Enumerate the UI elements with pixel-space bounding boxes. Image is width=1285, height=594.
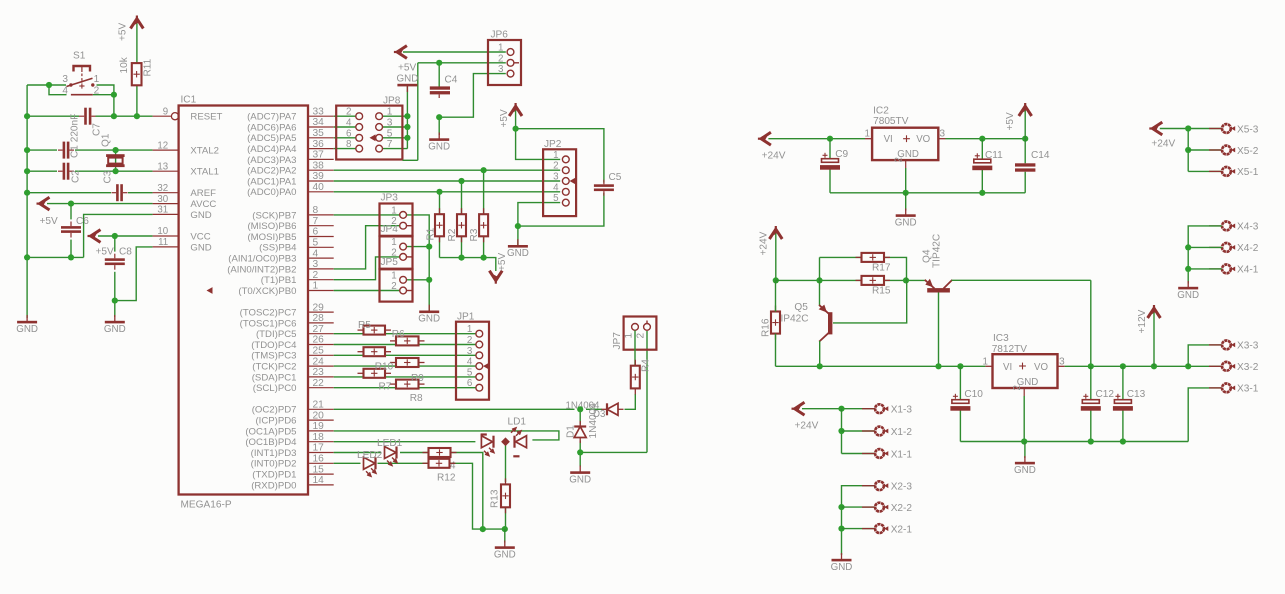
pin name (ICP)PD6 xyxy=(255,416,296,427)
svg-text:VI: VI xyxy=(884,134,893,145)
JP8 pin 4 circle xyxy=(356,124,363,131)
junction C4 top xyxy=(436,60,442,66)
wire +5V to C5 top xyxy=(516,129,604,183)
pin 28 stub ((TOSC1)PC6) xyxy=(308,322,334,324)
svg-text:7812TV: 7812TV xyxy=(992,344,1028,355)
power +5V arrow at VCC xyxy=(88,230,101,243)
label C10 xyxy=(964,389,983,400)
label JP4 xyxy=(381,224,399,235)
wire +24V to X1-3 xyxy=(802,408,875,410)
wire R15 to Q4 emitter xyxy=(884,279,926,281)
junction LD1 common cathode xyxy=(501,437,510,446)
wire R12 down to GND row xyxy=(450,463,505,529)
svg-text:X5-3: X5-3 xyxy=(1237,124,1259,135)
pin name (MISO)PB6 xyxy=(247,221,296,232)
pin number 33 xyxy=(313,106,325,117)
svg-text:(ADC5)PA5: (ADC5)PA5 xyxy=(247,133,296,144)
capacitor C11 xyxy=(972,153,992,170)
JP8 pin 7 circle xyxy=(376,145,383,152)
svg-text:(T1)PB1: (T1)PB1 xyxy=(261,275,297,286)
pin number 2 of JP8 xyxy=(346,107,351,118)
pin number 3 of IC3 xyxy=(1059,357,1065,368)
svg-text:9: 9 xyxy=(163,106,168,117)
wire GND joining segment xyxy=(27,256,84,258)
svg-text:GND: GND xyxy=(397,74,419,85)
label IC3 xyxy=(993,333,1009,344)
svg-text:GND: GND xyxy=(428,141,450,152)
pin 12 stub (XTAL2) xyxy=(153,149,179,151)
junction X5-3 xyxy=(1185,125,1191,131)
svg-text:4: 4 xyxy=(313,248,319,259)
svg-text:JP5: JP5 xyxy=(381,257,399,268)
label JP8 xyxy=(383,95,401,106)
pin marker on JP8 pin 5 xyxy=(370,134,376,141)
resistor R10 xyxy=(390,358,425,367)
wire AVCC net xyxy=(47,203,153,205)
svg-text:X1-1: X1-1 xyxy=(891,449,913,460)
label Q5 xyxy=(794,302,808,313)
junction X2-2 xyxy=(838,504,844,510)
capacitor C6 xyxy=(61,222,81,238)
wire C8 top branch xyxy=(114,236,116,252)
label +12V xyxy=(1137,309,1148,333)
diode D3 xyxy=(602,403,624,415)
pin name (ADC5)PA5 xyxy=(247,133,296,144)
svg-text:20: 20 xyxy=(313,410,325,421)
pin number 2 of IC2 xyxy=(893,157,904,162)
wire JP8 pin 1 to GND chain xyxy=(383,115,408,117)
svg-text:GND: GND xyxy=(895,217,917,228)
JP8 pin 5 circle xyxy=(376,134,383,141)
pin number 8 xyxy=(313,205,319,216)
svg-text:2: 2 xyxy=(313,270,319,281)
label X5-2 xyxy=(1237,146,1259,157)
svg-text:JP3: JP3 xyxy=(381,193,399,204)
svg-text:C14: C14 xyxy=(1031,150,1050,161)
wire Q5 base to node xyxy=(833,280,907,323)
svg-text:GND: GND xyxy=(190,210,211,221)
resistor R4 xyxy=(631,360,640,395)
JP1 pin 6 circle xyxy=(476,384,483,391)
svg-text:(T0/XCK)PB0: (T0/XCK)PB0 xyxy=(238,286,296,297)
svg-text:X2-3: X2-3 xyxy=(891,482,913,493)
svg-text:JP8: JP8 xyxy=(383,95,401,106)
svg-text:X2-1: X2-1 xyxy=(891,524,913,535)
power +5V arrow at JP6 xyxy=(394,46,407,59)
svg-text:1: 1 xyxy=(624,333,635,339)
svg-text:17: 17 xyxy=(313,443,325,454)
pin 3 stub ((AIN0/INT2)PB2) xyxy=(308,268,334,270)
JP3 pin 1 circle xyxy=(400,212,407,219)
svg-text:(OC2)PD7: (OC2)PD7 xyxy=(252,405,297,416)
label C12 xyxy=(1096,389,1115,400)
capacitor C2 xyxy=(58,163,74,180)
capacitor C8 xyxy=(105,254,125,270)
junction JP8 GND chain xyxy=(404,113,410,119)
pin 36 stub ((ADC4)PA4) xyxy=(308,148,334,150)
pin name (SS)PB4 xyxy=(259,243,297,254)
resistor R17 xyxy=(856,253,891,262)
junction C14 +5V arrow xyxy=(1022,136,1028,142)
pin number 32 xyxy=(157,183,168,194)
svg-text:18: 18 xyxy=(313,432,325,443)
pin 19 stub ((OC1A)PD5) xyxy=(308,430,334,432)
svg-text:3: 3 xyxy=(553,172,559,183)
connector JP2 body xyxy=(543,149,576,216)
pin number 18 xyxy=(313,432,325,443)
junction X3 rail xyxy=(1185,363,1191,369)
switch S1 xyxy=(67,66,95,95)
pin 5 stub ((SS)PB4) xyxy=(308,246,334,248)
svg-text:R1: R1 xyxy=(425,227,436,240)
pin name (SCK)PB7 xyxy=(252,210,296,221)
pin 8 stub ((SCK)PB7) xyxy=(308,214,334,216)
pin number 3 of JP1 xyxy=(467,346,473,357)
wire LD1 common cathode to R13 xyxy=(505,442,507,482)
wire S1 to reset net xyxy=(113,95,115,117)
svg-text:22: 22 xyxy=(313,378,325,389)
JP1 pin 4 circle xyxy=(476,363,483,370)
ground symbol above JP8 xyxy=(397,74,419,92)
wire R2 top xyxy=(461,181,463,214)
pin number 1 of JP1 xyxy=(467,324,472,335)
svg-text:19: 19 xyxy=(313,421,325,432)
svg-text:JP1: JP1 xyxy=(457,312,475,323)
wire resistor to JP1 pin 5 xyxy=(385,376,476,378)
label JP2 xyxy=(544,139,562,150)
wire reset net to IC pin9 xyxy=(96,115,153,117)
pin number 15 xyxy=(313,464,325,475)
label S1 xyxy=(73,51,86,62)
value 7805TV of IC2 xyxy=(873,116,909,127)
label C5 xyxy=(609,172,622,183)
pin number 4 of JP2 xyxy=(553,182,559,193)
pin name GND of IC3 xyxy=(1017,377,1039,388)
svg-text:JP2: JP2 xyxy=(544,139,562,150)
svg-text:(ADC3)PA3: (ADC3)PA3 xyxy=(247,155,296,166)
capacitor C3 xyxy=(112,184,128,201)
pin number 3 of IC2 xyxy=(939,129,945,140)
pin name (SCL)PC0 xyxy=(253,383,297,394)
wire resistor to JP1 pin 1 xyxy=(385,333,476,335)
junction JP5 GND xyxy=(426,277,432,283)
JP5 pin 2 circle xyxy=(400,287,407,294)
connector pin X4-1 xyxy=(1209,265,1235,274)
JP8 pin 1 circle xyxy=(376,113,383,120)
connector pin X4-3 xyxy=(1209,222,1235,231)
svg-text:+5V: +5V xyxy=(398,63,417,74)
pin name GND xyxy=(190,210,211,221)
pin 22 stub ((SCL)PC0) xyxy=(308,387,334,389)
svg-text:+24V: +24V xyxy=(1151,139,1175,150)
svg-text:11: 11 xyxy=(158,237,168,248)
pin 13 stub (XTAL1) xyxy=(153,170,179,172)
pin 21 stub ((OC2)PD7) xyxy=(308,408,334,410)
svg-text:+5V: +5V xyxy=(1005,112,1016,131)
junction C10 rail xyxy=(957,363,963,369)
svg-text:1: 1 xyxy=(498,43,503,54)
svg-text:26: 26 xyxy=(313,335,325,346)
svg-text:5: 5 xyxy=(553,193,559,204)
label R3 xyxy=(469,228,480,241)
pin 38 stub ((ADC2)PA2) xyxy=(308,169,334,171)
svg-text:XTAL2: XTAL2 xyxy=(190,146,219,157)
svg-text:2: 2 xyxy=(467,335,472,346)
wire PD3 to LED1 xyxy=(334,452,381,454)
wire X3-1 to GND rail xyxy=(1188,388,1222,442)
junction S1 left xyxy=(46,82,52,88)
label X3-1 xyxy=(1237,384,1259,395)
pin name AREF xyxy=(190,188,216,199)
pin number 24 xyxy=(313,356,325,367)
label D3 xyxy=(593,409,605,420)
svg-text:3: 3 xyxy=(467,346,473,357)
pin number 7 of JP8 xyxy=(387,139,393,150)
wire Q4 collector to +12V xyxy=(952,279,1091,281)
junction R3 bottom xyxy=(481,255,487,261)
svg-text:(OC1B)PD4: (OC1B)PD4 xyxy=(245,437,297,448)
svg-text:(ADC4)PA4: (ADC4)PA4 xyxy=(247,144,297,155)
svg-text:LED1: LED1 xyxy=(377,438,403,449)
wire X1 vertical xyxy=(841,409,843,454)
svg-text:C5: C5 xyxy=(609,172,622,183)
wire R17 left stub xyxy=(820,256,862,258)
label C8 xyxy=(119,247,132,258)
svg-text:28: 28 xyxy=(313,313,325,324)
pin name (T1)PB1 xyxy=(261,275,297,286)
pin 7 stub ((MISO)PB6) xyxy=(308,225,334,227)
pin 26 stub ((TDO)PC4) xyxy=(308,344,334,346)
svg-text:IC3: IC3 xyxy=(993,333,1009,344)
JP8 pin 6 circle xyxy=(356,134,363,141)
pin number 23 xyxy=(313,367,325,378)
pin number 16 xyxy=(313,454,325,465)
JP2 pin 3 circle xyxy=(562,178,569,185)
wire PC pin to resistor row 2 xyxy=(334,344,396,346)
svg-text:(TOSC1)PC6: (TOSC1)PC6 xyxy=(240,318,297,329)
svg-text:1: 1 xyxy=(467,324,472,335)
label JP3 xyxy=(381,193,399,204)
pin 1 stub ((T0/XCK)PB0) xyxy=(308,290,334,292)
LED LD1 left diode xyxy=(481,433,494,455)
power +5V arrow above R11 xyxy=(131,16,144,29)
pin number 26 xyxy=(313,335,325,346)
pin number 2 of IC3 xyxy=(1012,385,1023,390)
svg-text:GND: GND xyxy=(1014,465,1036,476)
pin number 30 xyxy=(157,194,168,205)
svg-text:7: 7 xyxy=(387,139,393,150)
svg-text:Q5: Q5 xyxy=(794,302,808,313)
pin 15 stub ((TXD)PD1) xyxy=(308,473,334,475)
pin number 3 of JP8 xyxy=(387,118,393,129)
ground symbol under R13 xyxy=(494,541,516,561)
JP6 pin 1 circle xyxy=(507,49,514,56)
junction AVCC C6 xyxy=(68,201,74,207)
svg-text:(SCL)PC0: (SCL)PC0 xyxy=(253,383,297,394)
svg-text:4: 4 xyxy=(553,182,559,193)
wire to X1-2 xyxy=(842,430,876,432)
svg-text:VI: VI xyxy=(1003,362,1012,373)
transistor Q5 TIP42C xyxy=(819,305,833,342)
svg-text:GND: GND xyxy=(494,549,516,560)
wire JP7 pin2 vertical xyxy=(646,331,648,452)
junction S1 right xyxy=(111,92,117,98)
svg-text:C12: C12 xyxy=(1096,389,1115,400)
svg-text:R11: R11 xyxy=(143,58,154,76)
resistor R6 xyxy=(390,336,425,345)
pin 3 stub of IC2 xyxy=(938,138,945,140)
connector JP5 body xyxy=(380,269,413,301)
wire C11 bottom stub xyxy=(981,169,983,193)
svg-text:VO: VO xyxy=(1034,362,1048,373)
wire +24V to IC2 VI xyxy=(768,138,865,140)
wire C10 top stub xyxy=(959,366,961,400)
svg-text:Q1: Q1 xyxy=(101,133,112,147)
pin name AVCC xyxy=(190,199,216,210)
svg-text:MEGA16-P: MEGA16-P xyxy=(181,500,232,511)
label Q4 xyxy=(922,249,933,263)
svg-text:1: 1 xyxy=(553,150,558,161)
pin 25 stub ((TMS)PC3) xyxy=(308,354,334,356)
wire node to D3 xyxy=(586,408,602,410)
label R2 xyxy=(447,228,458,241)
wire XTAL1 net left xyxy=(27,170,57,172)
pin name (AIN1/OC0)PB3 xyxy=(228,254,296,265)
connector pin X5-3 xyxy=(1209,124,1235,133)
svg-text:RESET: RESET xyxy=(190,112,222,123)
pin marker on JP7 pin 2 xyxy=(646,321,648,324)
label X2-1 xyxy=(891,524,913,535)
pin number 8 of JP8 xyxy=(346,139,352,150)
svg-text:1: 1 xyxy=(864,129,869,140)
label C2 xyxy=(71,170,82,183)
resistor R9 xyxy=(358,347,392,356)
pin name (ADC0)PA0 xyxy=(247,187,296,198)
transistor Q4 TIP42C xyxy=(925,279,952,293)
pin number 11 xyxy=(158,237,168,248)
svg-text:GND: GND xyxy=(418,314,440,325)
svg-text:37: 37 xyxy=(313,150,325,161)
LED LED1 xyxy=(385,447,398,466)
pin 20 stub ((ICP)PD6) xyxy=(308,419,334,421)
wire R2 bottom xyxy=(461,236,463,257)
wire Q4 base down xyxy=(938,293,940,367)
resistor R7 xyxy=(358,369,392,378)
wire R17 right xyxy=(884,257,907,280)
svg-text:X3-2: X3-2 xyxy=(1237,362,1259,373)
label LED2 xyxy=(357,450,383,461)
pin 4 stub ((AIN1/OC0)PB3) xyxy=(308,257,334,259)
label C11 xyxy=(985,150,1003,161)
wire R14 down to GND row xyxy=(451,453,483,530)
wire +12V stem xyxy=(1153,313,1155,367)
wire JP5 pin1 to GND chain xyxy=(407,279,430,281)
svg-text:X2-2: X2-2 xyxy=(891,503,913,514)
junction C12 rail xyxy=(1088,363,1094,369)
label JP1 xyxy=(457,312,475,323)
label JP6 xyxy=(491,30,509,41)
svg-text:(MOSI)PB5: (MOSI)PB5 xyxy=(247,232,296,243)
label +24V at X1 xyxy=(795,421,819,432)
label +5V above JP2 xyxy=(499,109,510,128)
label C6 xyxy=(76,216,89,227)
label Q1 xyxy=(101,133,112,147)
value 1N4004 of D1 xyxy=(588,403,599,439)
svg-text:8: 8 xyxy=(313,205,319,216)
connector pin X2-1 xyxy=(862,524,888,533)
junction +5V JP2 xyxy=(513,126,519,132)
pin name XTAL2 xyxy=(190,146,219,157)
svg-text:+5V: +5V xyxy=(117,22,128,41)
wire LED1 to R14 xyxy=(400,452,429,454)
pin number 22 xyxy=(313,378,325,389)
capacitor C12 xyxy=(1081,394,1101,411)
value TIP42C of Q4 xyxy=(931,234,942,268)
pin name VCC xyxy=(190,231,210,242)
JP6 pin 3 circle xyxy=(507,70,514,77)
svg-text:X3-3: X3-3 xyxy=(1237,341,1259,352)
label R10 xyxy=(375,362,394,373)
svg-text:S1: S1 xyxy=(73,51,86,62)
svg-text:C2: C2 xyxy=(71,170,82,183)
JP2 pin 1 circle xyxy=(562,156,569,163)
svg-text:3: 3 xyxy=(387,118,393,129)
svg-text:C9: C9 xyxy=(835,149,848,160)
JP4 pin 1 circle xyxy=(400,243,407,250)
junction crystal bottom xyxy=(113,168,119,174)
label X1-3 xyxy=(891,405,913,416)
pin marker on JP5 pin 2 xyxy=(407,290,412,292)
JP2 pin 4 circle xyxy=(562,188,569,195)
wire IC3 pin2 down xyxy=(1023,396,1025,442)
junction C9 top xyxy=(827,136,833,142)
svg-text:R16: R16 xyxy=(760,318,771,337)
ground symbol under X2 xyxy=(831,553,853,573)
svg-text:GND: GND xyxy=(831,562,853,573)
wire reset net to S1 pin3 xyxy=(27,84,66,86)
pin number 39 xyxy=(313,171,325,182)
wire PC pin to resistor row 4 xyxy=(334,365,396,367)
wire IC2 pin2 to GND row xyxy=(905,168,907,193)
label D1 xyxy=(565,425,576,438)
label C14 xyxy=(1031,150,1050,161)
svg-text:(OC1A)PD5: (OC1A)PD5 xyxy=(245,426,296,437)
pin number 25 xyxy=(313,346,325,357)
pin number 1 of JP3 xyxy=(391,205,396,216)
JP2 pin 2 circle xyxy=(562,167,569,174)
wire crystal branch xyxy=(115,150,117,171)
resistor R14 xyxy=(423,448,457,457)
power +5V arrow right xyxy=(1019,103,1032,116)
pin name (RXD)PD0 xyxy=(251,480,296,491)
JP2 pin 5 circle xyxy=(562,199,569,206)
wire +5V to R11 xyxy=(136,23,138,63)
junction C8 GND xyxy=(112,298,118,304)
wire to X4-2 xyxy=(1188,246,1222,248)
pin name (TCK)PC2 xyxy=(252,362,296,373)
svg-text:(ADC0)PA0: (ADC0)PA0 xyxy=(247,187,296,198)
svg-text:34: 34 xyxy=(313,117,325,128)
ground symbol left rail xyxy=(16,315,38,335)
pin number 5 xyxy=(313,238,319,249)
JP7 pin 2 circle xyxy=(644,324,651,331)
wire IC pin11 GND xyxy=(115,247,153,301)
power +5V arrow at AVCC xyxy=(37,197,50,210)
svg-text:(TMS)PC3: (TMS)PC3 xyxy=(251,351,296,362)
svg-text:LD1: LD1 xyxy=(508,417,527,428)
pin 37 stub ((ADC3)PA3) xyxy=(308,158,334,160)
wire PC pin to resistor row 5 xyxy=(334,376,364,378)
